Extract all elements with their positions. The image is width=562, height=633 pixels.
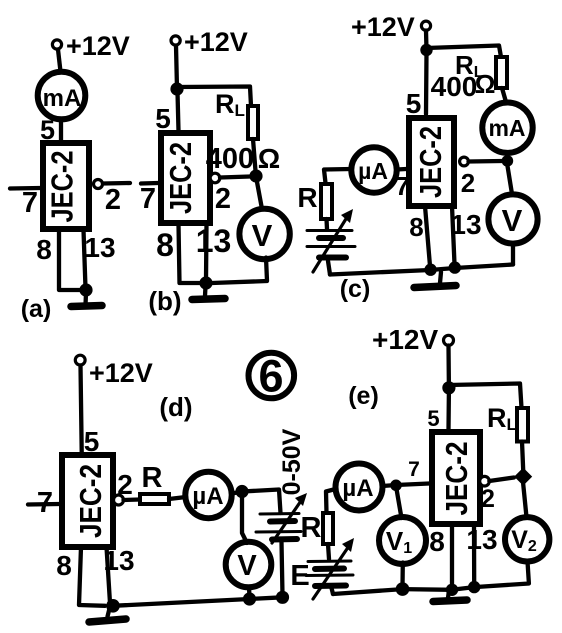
ground (e): [433, 590, 467, 602]
svg-text:(a): (a): [21, 295, 52, 323]
wire rail to V (c): [511, 243, 515, 265]
resistor RL (c): [496, 57, 507, 88]
svg-text:13: 13: [196, 223, 232, 259]
svg-text:R: R: [301, 512, 322, 544]
svg-text:8: 8: [56, 550, 72, 581]
IC JEC-2 (d): [62, 455, 113, 547]
svg-text:5: 5: [427, 406, 439, 431]
pin 13 wire (d): [107, 547, 111, 603]
pin 5 wire (b): [178, 92, 179, 131]
junction node (c) top: [420, 44, 432, 56]
svg-text:(e): (e): [348, 382, 379, 410]
wire node to voltmeter (b): [257, 182, 262, 209]
svg-text:2: 2: [461, 168, 475, 198]
junction node (b) top: [170, 82, 183, 95]
pin 7 wire stub (a): [10, 186, 40, 191]
voltmeter V (d): [226, 542, 272, 588]
pin 7 wire (e): [383, 484, 430, 487]
junction dot pin7 (e): [390, 480, 402, 492]
svg-text:13: 13: [450, 209, 481, 240]
svg-text:8: 8: [409, 212, 423, 242]
IC JEC-2 (c): [409, 118, 454, 206]
svg-text:Ω: Ω: [258, 143, 280, 174]
svg-text:µA: µA: [192, 483, 223, 510]
wire terminal down (e): [446, 346, 451, 388]
ammeter mA (a): [38, 72, 86, 120]
svg-text:JEC-2: JEC-2: [163, 142, 198, 214]
variable battery (c): [307, 209, 355, 272]
junction dot pin8 (e): [446, 584, 458, 596]
resistor RL (e): [517, 408, 528, 442]
junction dot pin13 (e): [468, 581, 480, 593]
svg-text:Ω: Ω: [475, 69, 496, 99]
svg-text:JEC-2: JEC-2: [45, 151, 80, 223]
svg-text:2: 2: [117, 469, 133, 500]
pin 5 wire (c): [424, 53, 429, 114]
svg-text:(b): (b): [148, 286, 181, 316]
wire diamond to V2 (e): [523, 484, 526, 517]
bottom rail (e): [333, 562, 529, 595]
svg-text:E: E: [290, 560, 309, 592]
pin 2 terminal circle (d): [114, 495, 124, 505]
junction node (b) mid: [249, 169, 262, 182]
ground (b): [192, 286, 225, 300]
svg-text:5: 5: [155, 103, 171, 134]
pin 13 wire (a): [84, 230, 86, 288]
svg-text:+12V: +12V: [184, 27, 248, 57]
wire uA to R (e): [326, 489, 336, 513]
voltmeter V (c): [488, 194, 537, 243]
junction dot (b) bottom: [199, 276, 212, 289]
junction dot 13 (c): [449, 261, 461, 273]
wire mA to node (c): [505, 153, 510, 159]
svg-text:V: V: [237, 550, 257, 582]
wire voltmeter to rail (b): [212, 258, 267, 284]
ground (a): [71, 293, 102, 307]
junction node (e) top: [442, 381, 455, 394]
pin 13 wire (c): [452, 206, 455, 264]
wire RL to node (e): [522, 442, 523, 471]
svg-text:7: 7: [395, 171, 409, 201]
pin 2 terminal circle (c): [460, 157, 469, 166]
pin 8 wire (b): [179, 224, 201, 283]
svg-text:13: 13: [84, 232, 115, 263]
voltmeter V2 (e): [505, 517, 549, 561]
pin 8 wire (a): [59, 230, 80, 290]
svg-text:7: 7: [22, 187, 38, 219]
svg-text:2: 2: [481, 485, 495, 513]
pin 2 wire (b): [220, 177, 250, 178]
variable battery 0-50V (d): [256, 493, 307, 543]
microammeter uA (d): [185, 472, 231, 518]
pin 2 terminal circle (a): [94, 180, 103, 189]
IC JEC-2 (b): [161, 133, 210, 223]
wire node to V (c): [508, 166, 513, 194]
wire R to battery E (e): [328, 544, 329, 559]
junction dot V1 (e): [396, 582, 410, 596]
pin 13 wire (e): [472, 524, 477, 585]
wire R to uA (d): [169, 497, 186, 499]
terminal +12V (a): [52, 40, 61, 49]
svg-text:7: 7: [37, 487, 53, 519]
pin 2 terminal circle (e): [480, 476, 490, 486]
junction node (c) right: [502, 155, 514, 167]
wire terminal down (d): [81, 366, 82, 453]
wire E to rail (e): [331, 586, 333, 594]
pin 2 wire stub (a): [103, 181, 130, 186]
svg-text:400: 400: [431, 71, 478, 102]
microammeter uA (e): [336, 464, 383, 511]
terminal +12V (b): [171, 36, 180, 45]
voltmeter V (b): [239, 209, 289, 259]
svg-text:8: 8: [156, 227, 174, 263]
resistor RL (b): [248, 106, 258, 139]
pin 8 wire (e): [450, 524, 454, 588]
svg-text:+12V: +12V: [66, 31, 130, 61]
ammeter mA (c): [482, 103, 532, 153]
microammeter uA (c): [351, 147, 396, 192]
svg-text:JEC-2: JEC-2: [73, 464, 108, 538]
wire terminal down (c): [424, 31, 429, 51]
wire uA to R (c): [324, 169, 351, 183]
wire terminal to mA (a): [58, 50, 61, 72]
pin 8 wire (c): [425, 206, 430, 266]
resistor R (c): [321, 184, 332, 219]
pin 8 wire (d): [79, 547, 105, 606]
bottom rail (d): [113, 597, 283, 606]
terminal +12V (e): [444, 335, 454, 345]
svg-text:V: V: [252, 218, 273, 253]
wire uA to node (d): [232, 492, 241, 494]
wire to RL (e): [449, 384, 522, 409]
junction dot 8 (c): [424, 264, 436, 276]
svg-text:7: 7: [140, 183, 156, 215]
svg-text:5: 5: [406, 88, 422, 119]
svg-text:R: R: [297, 182, 317, 213]
wire terminal down (b): [176, 46, 177, 90]
svg-text:+12V: +12V: [372, 324, 438, 355]
resistor R (e): [323, 513, 333, 544]
pin 2 terminal circle (b): [210, 173, 220, 183]
svg-text:+12V: +12V: [351, 12, 415, 42]
wire to RL (b): [177, 87, 251, 107]
svg-text:R: R: [142, 462, 163, 494]
svg-text:mA: mA: [43, 85, 82, 112]
wire node to V1 (e): [397, 489, 402, 518]
junction node (d): [235, 485, 248, 498]
IC JEC-2 (a): [43, 143, 89, 229]
svg-text:+12V: +12V: [89, 358, 153, 388]
wire pin2 to R (d): [124, 497, 141, 502]
wire node to battery (d): [242, 490, 281, 514]
svg-text:7: 7: [408, 458, 420, 481]
wire battery to rail (c): [328, 261, 330, 275]
resistor R (d) horizontal: [140, 494, 169, 504]
wire R to battery (c): [324, 219, 329, 229]
svg-text:2: 2: [105, 184, 121, 216]
wire RL to node (b): [253, 139, 256, 171]
pin 7 wire (c): [397, 167, 406, 172]
terminal +12V (d): [75, 355, 85, 365]
voltmeter V1 (e): [379, 517, 426, 564]
svg-text:JEC-2: JEC-2: [439, 442, 474, 516]
svg-text:JEC-2: JEC-2: [413, 126, 448, 198]
svg-text:0-50V: 0-50V: [278, 428, 306, 495]
bottom rail (c): [330, 265, 513, 275]
pin 13 wire (b): [204, 224, 209, 281]
svg-text:400: 400: [206, 143, 254, 175]
svg-text:13: 13: [466, 524, 497, 555]
svg-text:(c): (c): [340, 275, 371, 303]
wire to RL (c): [427, 46, 502, 58]
svg-text:2: 2: [215, 183, 231, 215]
svg-text:(d): (d): [159, 392, 192, 422]
junction dot (d) ground: [106, 599, 120, 613]
svg-text:6: 6: [258, 351, 283, 402]
wire battery to rail (d): [282, 542, 283, 595]
pin 2 wire (e): [489, 478, 514, 482]
wire mA to pin 5 (a): [59, 120, 63, 142]
wire V1 to rail (e): [400, 563, 405, 588]
junction dot under battery (d): [276, 591, 289, 604]
wire V to rail (d): [247, 587, 252, 597]
svg-text:13: 13: [103, 545, 134, 576]
svg-text:8: 8: [429, 526, 445, 557]
IC JEC-2 (e): [432, 432, 480, 524]
junction dot (a): [79, 283, 92, 296]
ground (c): [414, 272, 456, 288]
terminal +12V (c): [421, 21, 430, 30]
variable battery E (e): [306, 538, 354, 599]
junction diamond node (e): [514, 468, 532, 486]
ground (d): [89, 609, 126, 623]
svg-text:mA: mA: [488, 115, 525, 141]
junction dot under V (d): [243, 592, 256, 605]
pin 2 wire (c): [469, 159, 503, 164]
pin 7 wire stub (b): [141, 181, 158, 186]
pin 5 wire (e): [446, 391, 451, 430]
svg-text:8: 8: [36, 234, 52, 265]
wire node to V (d): [242, 495, 247, 543]
wire RL to mA (c): [502, 88, 506, 102]
svg-text:µA: µA: [342, 475, 373, 502]
svg-text:µA: µA: [358, 158, 388, 184]
svg-text:V: V: [502, 203, 523, 238]
pin 7 wire stub (d): [28, 502, 59, 507]
